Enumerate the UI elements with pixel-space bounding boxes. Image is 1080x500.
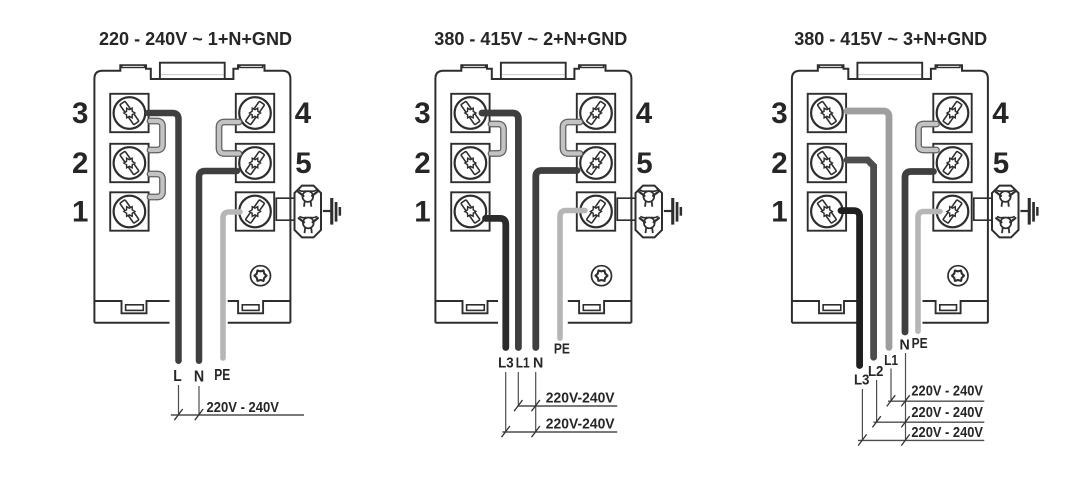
svg-text:380 - 415V ~ 2+N+GND: 380 - 415V ~ 2+N+GND xyxy=(434,28,627,49)
svg-text:220V-240V: 220V-240V xyxy=(546,417,615,433)
torx fixing screw (diagram 3) xyxy=(948,266,968,286)
top mounting tab right lip xyxy=(240,65,263,67)
svg-text:4: 4 xyxy=(992,97,1009,130)
bottom ledge right with DIN foot xyxy=(923,301,988,313)
earth clamp block (diagram 3) xyxy=(992,186,1019,238)
bottom ledge left with DIN foot xyxy=(94,301,169,313)
torx fixing screw (diagram 1) xyxy=(251,266,271,286)
bottom ledge left with DIN foot xyxy=(792,301,857,313)
terminal 2 screw (diagram 1) xyxy=(110,144,148,182)
svg-text:220V-240V: 220V-240V xyxy=(546,391,615,407)
earth clamp block (diagram 1) xyxy=(295,186,322,238)
terminal PE screw (diagram 2) xyxy=(577,192,615,230)
wire PE from terminal PE (diagram 1) xyxy=(223,212,240,358)
terminal block body outline (diagram 2) xyxy=(435,65,631,323)
wire PE from terminal PE (diagram 3) xyxy=(918,212,940,332)
wire L3 from terminal 1 (diagram 3) xyxy=(841,211,860,366)
top center cover tab xyxy=(501,63,566,79)
terminal 5 screw (diagram 2) xyxy=(577,144,615,182)
jumper link terminals 4-5 (diagram 2) xyxy=(563,122,580,154)
wire L from terminal 3 (diagram 1) xyxy=(148,113,179,361)
earth ground symbol (diagram 2) xyxy=(664,198,682,225)
svg-text:1: 1 xyxy=(771,195,787,228)
svg-text:PE: PE xyxy=(912,335,928,352)
wire L1 from terminal 3 (diagram 3) xyxy=(847,111,889,347)
earth clamp bracket (diagram 1) xyxy=(276,198,295,220)
terminal 3 screw (diagram 1) xyxy=(110,94,148,132)
svg-text:4: 4 xyxy=(636,97,653,130)
top mounting tab left lip xyxy=(463,65,486,67)
top mounting tab left lip xyxy=(819,65,842,67)
earth clamp bracket (diagram 2) xyxy=(617,198,636,220)
terminal block body outline (diagram 3) xyxy=(792,65,988,323)
svg-text:3: 3 xyxy=(414,97,430,130)
torx fixing screw (diagram 2) xyxy=(592,266,612,286)
svg-text:220V - 240V: 220V - 240V xyxy=(207,400,280,416)
wire N from terminal 5 (diagram 1) xyxy=(199,171,237,361)
top center cover tab xyxy=(857,63,922,79)
earth clamp block (diagram 2) xyxy=(636,186,663,238)
svg-text:4: 4 xyxy=(295,97,312,130)
terminal block body outline (diagram 1) xyxy=(94,65,290,323)
jumper link terminals 4-5 (diagram 3) xyxy=(919,124,937,150)
bottom ledge left with DIN foot xyxy=(435,301,498,313)
dimension leader lines (diagram 3) xyxy=(861,389,863,440)
top center cover tab xyxy=(160,63,225,79)
terminal 4 screw (diagram 3) xyxy=(933,94,971,132)
top mounting tab right lip xyxy=(581,65,604,67)
bottom ledge right with DIN foot xyxy=(568,301,632,313)
jumper link terminals 3-2 (diagram 1) xyxy=(150,121,163,150)
svg-text:L1: L1 xyxy=(516,355,530,372)
svg-text:L1: L1 xyxy=(884,352,898,369)
wire L2 from terminal 2 (diagram 3) xyxy=(847,160,874,357)
terminal 5 screw (diagram 3) xyxy=(933,144,971,182)
svg-text:2: 2 xyxy=(771,147,787,180)
top mounting tab left lip xyxy=(122,65,145,67)
wire L1 from terminal 3 (diagram 2) xyxy=(482,113,518,348)
wire N from terminal 5 (diagram 2) xyxy=(536,171,577,348)
svg-text:N: N xyxy=(533,355,543,372)
dimension leader lines (diagram 2) xyxy=(505,372,507,432)
terminal 2 screw (diagram 2) xyxy=(451,144,489,182)
terminal 5 screw (diagram 1) xyxy=(236,144,274,182)
earth clamp bracket (diagram 3) xyxy=(974,198,993,220)
bottom edge xyxy=(435,322,498,324)
svg-text:3: 3 xyxy=(72,97,88,130)
svg-text:PE: PE xyxy=(554,341,570,358)
svg-text:380 - 415V ~ 3+N+GND: 380 - 415V ~ 3+N+GND xyxy=(794,28,987,49)
dimension leader lines (diagram 1) xyxy=(178,385,180,415)
bottom ledge right with DIN foot xyxy=(228,301,291,313)
jumper link terminals 3-2 (diagram 2) xyxy=(491,124,504,154)
terminal 4 screw (diagram 1) xyxy=(236,94,274,132)
wire N from terminal 5 (diagram 3) xyxy=(905,172,934,333)
svg-text:2: 2 xyxy=(72,147,88,180)
svg-text:1: 1 xyxy=(414,195,430,228)
top mounting tab right lip xyxy=(937,65,960,67)
svg-text:3: 3 xyxy=(771,97,787,130)
svg-text:1: 1 xyxy=(72,195,88,228)
svg-text:5: 5 xyxy=(295,147,311,180)
terminal PE screw (diagram 1) xyxy=(236,192,274,230)
svg-text:2: 2 xyxy=(414,147,430,180)
earth ground symbol (diagram 1) xyxy=(323,198,341,225)
svg-text:N: N xyxy=(194,369,204,386)
svg-text:L2: L2 xyxy=(868,363,884,380)
terminal 1 screw (diagram 3) xyxy=(808,192,846,230)
earth ground symbol (diagram 3) xyxy=(1020,198,1038,225)
wire PE from terminal PE (diagram 2) xyxy=(560,211,585,339)
jumper link terminals 4-5 (diagram 1) xyxy=(219,122,239,154)
svg-text:PE: PE xyxy=(214,367,230,384)
svg-text:220 - 240V ~ 1+N+GND: 220 - 240V ~ 1+N+GND xyxy=(99,28,292,49)
wire L3 from terminal 1 (diagram 2) xyxy=(486,218,506,347)
terminal 4 screw (diagram 2) xyxy=(577,94,615,132)
bottom edge xyxy=(792,322,857,324)
terminal PE screw (diagram 3) xyxy=(933,192,971,230)
svg-text:220V - 240V: 220V - 240V xyxy=(911,384,983,400)
terminal 1 screw (diagram 2) xyxy=(451,192,489,230)
terminal 1 screw (diagram 1) xyxy=(110,192,148,230)
svg-text:220V - 240V: 220V - 240V xyxy=(911,425,983,441)
jumper link terminals 2-1 (diagram 1) xyxy=(150,174,163,197)
terminal 3 screw (diagram 2) xyxy=(451,94,489,132)
svg-text:5: 5 xyxy=(993,147,1009,180)
terminal 2 screw (diagram 3) xyxy=(808,144,846,182)
svg-text:5: 5 xyxy=(636,147,652,180)
svg-text:220V - 240V: 220V - 240V xyxy=(911,405,983,421)
bottom edge xyxy=(94,322,169,324)
svg-text:N: N xyxy=(900,336,910,353)
terminal 3 screw (diagram 3) xyxy=(808,94,846,132)
svg-text:L: L xyxy=(173,368,182,385)
svg-text:L3: L3 xyxy=(498,355,514,372)
